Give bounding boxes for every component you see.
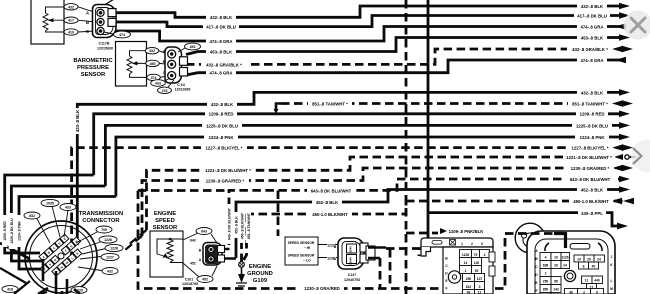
svg-text:12040753: 12040753 [344, 278, 360, 282]
label 474 GRA left2 [206, 70, 236, 76]
label 450-1.0 BLK/WHT left [308, 211, 352, 217]
svg-text:851-.8 TAN/WHT *: 851-.8 TAN/WHT * [312, 101, 348, 106]
pin B [97, 18, 104, 25]
svg-text:433: 433 [65, 206, 71, 210]
svg-text:G109: G109 [253, 278, 268, 284]
wire 452 BLK (engine speed sensor to ECM) [236, 190, 619, 259]
label 1209 RED vertical left [2, 215, 8, 247]
svg-text:1224-.8 PNK: 1224-.8 PNK [18, 221, 22, 241]
svg-text:643: 643 [201, 230, 207, 234]
wire 430 PPL (speed sensor to ECM arrow) [428, 213, 618, 226]
svg-text:12012830: 12012830 [175, 87, 191, 91]
connector outer circle [25, 221, 97, 293]
label 474 GRA left [206, 38, 236, 44]
svg-text:453: 453 [190, 45, 196, 49]
pin letters A B C [86, 11, 90, 34]
svg-text:433-.8 BLK: 433-.8 BLK [75, 109, 80, 132]
svg-text:1109-.8 PNK/BLK: 1109-.8 PNK/BLK [449, 229, 485, 234]
wire diagonal into transmission connector from left edge [0, 243, 30, 259]
oval label 1227 [101, 253, 119, 260]
svg-text:1225-.8 DK BLU: 1225-.8 DK BLU [206, 123, 238, 128]
wire 432/433 BLK (transmission to right arrow) [77, 92, 619, 245]
baro terminal squares [180, 57, 188, 66]
oval label 1229 (bottom) [71, 287, 87, 294]
label 1227 BLK/YEL right [567, 145, 613, 151]
arrow 1221 DK BLU/WHT [614, 154, 623, 160]
terminal squares [108, 9, 116, 17]
oval label 632 [24, 212, 40, 219]
connector C117B body [93, 5, 117, 38]
svg-text:14: 14 [464, 261, 468, 265]
label 474 GRA right [577, 24, 607, 30]
down arrowhead on 851 stub [274, 109, 279, 114]
svg-text:453-.8 BLK: 453-.8 BLK [581, 35, 604, 40]
svg-text:12: 12 [590, 286, 594, 290]
svg-text:1209-.8 RED: 1209-.8 RED [580, 112, 605, 117]
oval label 474 (C117B pin C) [104, 32, 113, 34]
arrow 851 TAN/WHT double [622, 100, 633, 107]
svg-text:1227-.8 BLK/YEL *: 1227-.8 BLK/YEL * [572, 146, 609, 151]
svg-text:79: 79 [474, 253, 478, 257]
svg-text:440: 440 [594, 279, 600, 283]
wire 851 TAN/WHT dashed [281, 102, 612, 105]
oval label 418 (bottom-left) [2, 286, 18, 293]
svg-text:1221-.8 DK BLU/WHT *: 1221-.8 DK BLU/WHT * [566, 155, 612, 160]
svg-text:140: 140 [474, 261, 480, 265]
center circle [58, 253, 64, 259]
rotated wire labels [2, 108, 251, 249]
svg-text:1230-.8 GRA/RED *: 1230-.8 GRA/RED * [206, 178, 245, 183]
arrow 643 DK BLU/WHT [619, 176, 630, 183]
svg-text:432-.8 BLK: 432-.8 BLK [581, 90, 604, 95]
label 643 DK BLU/WHT left [307, 188, 355, 194]
label 851 TAN/WHT right [568, 101, 612, 107]
pin A [97, 9, 104, 16]
label 474 GRA right2 [577, 57, 607, 63]
connector C147 body [338, 238, 375, 269]
F-block pin letters [445, 257, 448, 291]
svg-text:474-.8 GRA: 474-.8 GRA [581, 24, 604, 29]
svg-text:1221-.8 DK BLU/WHT *: 1221-.8 DK BLU/WHT * [205, 168, 251, 173]
oval label 1226 [99, 236, 117, 243]
svg-text:1227: 1227 [106, 256, 114, 260]
wire 1221 DK BLU/WHT dashed [147, 157, 620, 230]
title [73, 58, 113, 78]
oval label 432 (TPS) [64, 4, 78, 36]
top-right arc detail [598, 243, 602, 251]
dashed 1230 GRA/RED from speed sensor LO [380, 249, 419, 289]
oval label 432 (trans) [102, 268, 118, 275]
dashed wire 851 TAN/WHT to ground [244, 214, 247, 260]
svg-text:L: L [610, 279, 612, 283]
leader lines from ovals to pins [36, 206, 108, 271]
svg-text:40: 40 [592, 265, 596, 269]
title [79, 211, 123, 224]
svg-text:24: 24 [563, 264, 567, 268]
svg-text:TRANSMISSION: TRANSMISSION [79, 211, 123, 217]
svg-text:432: 432 [107, 270, 113, 274]
wires leaving connector bottom [0, 259, 80, 294]
svg-text:C101: C101 [185, 278, 194, 282]
oval label 1228 [105, 244, 123, 251]
dashed enclosure left/bottom/top (engine harness boundary) [138, 191, 505, 289]
arrow 417 DK BLU [619, 12, 630, 19]
wire 1225 DK BLU [11, 125, 619, 261]
svg-text:417: 417 [68, 19, 74, 23]
svg-text:12018799: 12018799 [182, 282, 198, 286]
svg-text:147: 147 [477, 277, 483, 281]
svg-text:455: 455 [150, 62, 156, 66]
ESS wiper arrowhead [163, 253, 168, 258]
svg-text:39: 39 [475, 269, 479, 273]
oval label 709 [96, 226, 112, 233]
svg-text:SPEED: SPEED [155, 218, 175, 224]
label 430 PPL right [578, 210, 606, 216]
svg-text:250: 250 [466, 277, 472, 281]
svg-text:476: 476 [162, 89, 168, 93]
svg-text:432-.8 GRA/BLK *: 432-.8 GRA/BLK * [572, 47, 608, 52]
baro wiper arrowhead [132, 61, 138, 65]
svg-text:B: B [86, 20, 89, 25]
label 417 DK BLU right [574, 13, 610, 19]
svg-text:418: 418 [7, 288, 13, 292]
svg-text:C 64: C 64 [177, 83, 185, 87]
svg-text:1209-.8 RED: 1209-.8 RED [3, 221, 7, 241]
speed sensor box [285, 237, 318, 265]
wire 450-1.0 BLK/WHT dashed right portion [406, 200, 628, 203]
svg-text:40: 40 [467, 291, 471, 294]
F-block cell numbers [462, 253, 486, 294]
svg-text:1224-.8 PNK: 1224-.8 PNK [580, 135, 606, 140]
svg-text:CONNECTOR: CONNECTOR [82, 218, 120, 224]
oval label 433 (baro bottom) [164, 78, 175, 87]
F-block grid cells [460, 250, 496, 294]
arrow 452 BLK [619, 186, 630, 193]
wire 450 BLK/WHT solid part (vertical from top) [427, 0, 430, 238]
svg-text:474-.8 GRA: 474-.8 GRA [210, 71, 233, 76]
ECM left cell grid [540, 253, 605, 294]
label 1230 GRA/RED bottom [300, 285, 344, 291]
label 1224 PNK vertical left [16, 215, 22, 247]
svg-text:1225-.8 DK BLU: 1225-.8 DK BLU [10, 218, 14, 244]
svg-text:433: 433 [155, 82, 161, 86]
wire 450 BLK/WHT dashed from engine ground [242, 201, 407, 262]
svg-text:698: 698 [543, 264, 549, 268]
svg-text:450-.8 BLK/WHT: 450-.8 BLK/WHT [241, 212, 245, 239]
label 432 BLK right [577, 3, 607, 9]
label 643 DK BLU/WHT right [566, 176, 614, 182]
svg-text:417-.8 DK BLU: 417-.8 DK BLU [577, 13, 607, 18]
label 1221 DK BLU/WHT right [563, 154, 615, 160]
svg-text:1230-.8 GRA/RED: 1230-.8 GRA/RED [304, 286, 340, 291]
svg-text:24: 24 [597, 258, 601, 262]
ECM body inner [535, 239, 608, 294]
connector inner circle [30, 226, 93, 289]
label 417 DK BLU left [203, 24, 239, 30]
connector C101 body [203, 243, 225, 266]
label 450 BLK/WHT vertical (ground) [239, 209, 244, 243]
label 432 BLK left [206, 15, 236, 21]
svg-text:3: 3 [479, 285, 481, 289]
svg-text:40: 40 [569, 291, 573, 294]
cut-off diagonal above connector [103, 0, 114, 6]
svg-text:BAROMETRIC: BAROMETRIC [73, 58, 113, 64]
wire 432 GRA/BLK dashed (BARO pin B) [186, 49, 612, 64]
leads to connector C64 [159, 51, 168, 78]
baro pin B [168, 60, 176, 68]
label 1225 DK BLU left [202, 123, 242, 129]
wire 417 DK BLU (TPS pin B) [114, 16, 619, 27]
svg-text:F: F [445, 287, 447, 291]
svg-text:643-.8 DK BLU/WHT: 643-.8 DK BLU/WHT [311, 188, 352, 193]
sensor box [31, 0, 64, 44]
pin squares grid (rotated) [34, 230, 87, 281]
arrow 450 BLK/WHT double left [611, 198, 622, 205]
svg-text:1225-.8 DK BLU: 1225-.8 DK BLU [576, 123, 608, 128]
svg-text:1227-.8 BLK/YEL *: 1227-.8 BLK/YEL * [206, 146, 243, 151]
label 1109 PNK/BLK with arrow [440, 228, 447, 234]
svg-text:58: 58 [554, 280, 558, 284]
arrow 432 GRA/BLK double [622, 46, 633, 53]
svg-text:432-.8 BLK: 432-.8 BLK [210, 15, 233, 20]
svg-text:474-.8 GRA: 474-.8 GRA [210, 39, 233, 44]
svg-text:C117B: C117B [99, 42, 110, 46]
label 432 BLK mid right [577, 90, 607, 96]
svg-text:812: 812 [466, 285, 472, 289]
svg-text:643-.8 DK BLU/WHT: 643-.8 DK BLU/WHT [570, 177, 611, 182]
wire 1227 BLK/YEL dashed [72, 148, 612, 260]
leads from ovals to connector C117B [78, 0, 114, 32]
leads to ovals / C101 [183, 233, 217, 278]
wire 474 GRA (TPS pin C) [114, 27, 626, 42]
svg-text:~ LO: ~ LO [303, 259, 311, 263]
svg-text:12040: 12040 [349, 257, 353, 265]
svg-text:12040: 12040 [349, 246, 353, 254]
svg-text:PRESSURE: PRESSURE [77, 65, 109, 71]
middle ring [564, 270, 575, 281]
svg-text:8: 8 [583, 265, 585, 269]
dashed diagonals into transmission connector [125, 230, 147, 250]
svg-text:143: 143 [553, 288, 559, 292]
label 432 GRA/BLK left [201, 62, 247, 68]
connector C64 body [165, 47, 188, 83]
label 452 BLK vertical (ESS) [233, 212, 238, 238]
arrow 1209 RED [619, 111, 630, 118]
oval label 476 [158, 87, 172, 93]
label 1223 GRA/RED right [566, 165, 614, 171]
ECM cell numbers [543, 256, 601, 294]
label 1209 RED left [205, 111, 237, 117]
svg-text:474: 474 [151, 76, 157, 80]
svg-text:450-1.0 BLK/WHT: 450-1.0 BLK/WHT [312, 212, 348, 217]
ECM body outer [527, 231, 615, 294]
svg-text:1: 1 [465, 269, 467, 273]
pin C [97, 27, 104, 34]
arrow 474 GRA left [615, 57, 626, 64]
svg-text:SPEED SENSOR: SPEED SENSOR [288, 241, 315, 245]
label 643 DK BLU/WHT vertical (ESS) [226, 204, 231, 244]
wire 1224 PNK [19, 137, 619, 269]
svg-text:2: 2 [471, 242, 473, 246]
arrow 432 BLK [619, 3, 630, 10]
oval label 433 (trans) [60, 204, 76, 211]
svg-text:1126: 1126 [561, 256, 568, 260]
svg-text:SENSOR: SENSOR [153, 225, 178, 231]
svg-text:ENGINE: ENGINE [249, 264, 271, 270]
svg-text:C147: C147 [348, 273, 357, 277]
wire 1223 GRA/RED dashed [142, 168, 612, 236]
svg-text:452-.8 BLK: 452-.8 BLK [581, 187, 604, 192]
svg-text:432-.8 GRA/BLK *: 432-.8 GRA/BLK * [206, 62, 242, 67]
svg-text:250: 250 [543, 280, 549, 284]
label 1225 DK BLU vertical left [9, 213, 15, 249]
svg-text:1226: 1226 [104, 238, 112, 242]
label 851 TAN/WHT left [308, 101, 352, 107]
svg-text:452: 452 [190, 261, 196, 265]
F-block body outline [443, 247, 493, 294]
svg-text:1126: 1126 [462, 253, 469, 257]
arrow 432 BLK mid [619, 89, 630, 96]
wire 643 DK BLU/WHT dashed [229, 179, 619, 245]
svg-text:J: J [611, 255, 613, 259]
arrow 1224 PNK [619, 134, 630, 141]
svg-text:453-.8 BLK: 453-.8 BLK [210, 49, 233, 54]
label 1227 BLK/YEL left [201, 145, 247, 151]
svg-text:643: 643 [190, 238, 196, 242]
svg-text:1224-.8 PNK: 1224-.8 PNK [209, 135, 235, 140]
svg-text:474-.8 GRA: 474-.8 GRA [581, 58, 604, 63]
label 1209 RED right [576, 111, 608, 117]
svg-text:GROUND: GROUND [247, 271, 273, 277]
arrow 1225 DK BLU [619, 122, 630, 129]
svg-text:16: 16 [554, 256, 558, 260]
svg-text:12015830: 12015830 [97, 47, 113, 51]
svg-text:417-.8 DK BLU: 417-.8 DK BLU [206, 25, 236, 30]
label 432 BLK mid-left [207, 102, 237, 108]
svg-text:632: 632 [29, 214, 35, 218]
svg-text:709: 709 [101, 228, 107, 232]
wire stub into ECM connector [554, 232, 566, 248]
label 1225 DK BLU right [572, 123, 612, 129]
stub C147 to 430 PPL / 1230 [368, 248, 386, 259]
label 452 BLK left [312, 199, 342, 205]
arrow 1227 BLK/YEL double [622, 144, 633, 151]
wire 1209 RED [5, 114, 619, 253]
label 452 BLK right [577, 187, 607, 193]
svg-text:432: 432 [68, 5, 74, 9]
wire 453 BLK (BARO pin A) [186, 38, 619, 55]
svg-text:452-.8 BLK: 452-.8 BLK [234, 216, 238, 234]
svg-text:SPEED SENSOR: SPEED SENSOR [288, 254, 315, 258]
wire 474 GRA (BARO pin C) [186, 60, 626, 75]
dashed vertical wire x406 from top [390, 0, 438, 294]
svg-text:430-.8 PPL: 430-.8 PPL [581, 211, 603, 216]
svg-text:12: 12 [478, 291, 482, 294]
baro pin C [168, 72, 176, 80]
potentiometer wiper arrowhead [48, 18, 54, 22]
ESS pickup coil element [157, 239, 183, 263]
top-left arc detail [545, 243, 549, 251]
svg-text:432: 432 [149, 49, 155, 53]
svg-text:9: 9 [596, 291, 598, 294]
baro potentiometer element [127, 51, 147, 78]
potentiometer element [43, 7, 64, 32]
svg-text:432-.8 BLK: 432-.8 BLK [581, 4, 604, 9]
svg-text:2: 2 [545, 272, 547, 276]
svg-text:ENGINE: ENGINE [154, 211, 176, 217]
baro sensor box [116, 42, 147, 87]
wire 432 BLK (TPS pin A to right arrow) [114, 6, 619, 17]
label 851 TAN/WHT vertical (ground) [246, 209, 251, 243]
svg-text:SENSOR: SENSOR [81, 72, 106, 78]
F-block mounting ring [448, 271, 460, 283]
svg-text:850: 850 [543, 288, 549, 292]
svg-text:452: 452 [202, 278, 208, 282]
svg-text:1230-.8 GRA/RED *: 1230-.8 GRA/RED * [571, 166, 610, 171]
label 1221 DK BLU/WHT left [202, 168, 254, 174]
svg-text:F: F [535, 289, 537, 293]
svg-text:3: 3 [481, 242, 483, 246]
ECM left letter column [535, 249, 613, 293]
arrow 1223 GRA/RED double [622, 165, 633, 172]
oval label 432 (baro) [145, 48, 160, 81]
svg-text:~ HI: ~ HI [304, 246, 310, 250]
label 1224 PNK left [204, 134, 238, 140]
F-block top rail [421, 238, 493, 247]
arrow 430 PPL [617, 223, 628, 230]
svg-text:M: M [610, 287, 613, 291]
svg-text:1228: 1228 [110, 247, 118, 251]
label 432 GRA/BLK right [567, 46, 613, 52]
svg-text:419: 419 [68, 31, 74, 35]
latch circle [515, 223, 545, 253]
svg-text:4: 4 [484, 253, 486, 257]
ESS box [150, 231, 183, 277]
label 1224 PNK right [575, 134, 609, 140]
svg-text:1: 1 [461, 242, 463, 246]
oval label 453 [178, 48, 185, 52]
label 453 BLK right [577, 35, 607, 41]
F-block left flange [421, 247, 431, 256]
svg-text:474: 474 [119, 33, 125, 37]
svg-text:452-.8 BLK: 452-.8 BLK [316, 200, 339, 205]
oval label 643 [196, 228, 212, 235]
baro pin letters [163, 50, 166, 76]
arrow 474 GRA left [615, 23, 626, 30]
label 1223 GRA/RED left [201, 178, 249, 184]
svg-text:1209-.8 RED: 1209-.8 RED [209, 112, 234, 117]
svg-text:851-.8 TAN/WHT: 851-.8 TAN/WHT [247, 212, 251, 239]
svg-text:20: 20 [587, 258, 591, 262]
ground symbol [236, 262, 247, 289]
svg-text:851-.8 TAN/WHT *: 851-.8 TAN/WHT * [572, 101, 608, 106]
svg-text:1035: 1035 [46, 202, 54, 206]
label 433 BLK vertical [74, 108, 80, 134]
label 450-1.0 BLK/WHT right [569, 198, 613, 204]
svg-text:26: 26 [554, 264, 558, 268]
arrow 453 BLK [619, 34, 630, 41]
top pill slot [570, 244, 590, 250]
stubs from C101 to vertical wires [225, 249, 237, 259]
svg-text:10: 10 [577, 258, 581, 262]
oval label 452 [197, 276, 213, 283]
svg-text:432-.8 BLK: 432-.8 BLK [211, 102, 234, 107]
svg-text:4: 4 [545, 256, 547, 260]
label 453 BLK left [206, 49, 236, 55]
ECM right cell grid [574, 255, 584, 262]
oval label 1035 [41, 199, 59, 206]
wire 450 dashed across ECM latch (overlay) [505, 232, 556, 235]
